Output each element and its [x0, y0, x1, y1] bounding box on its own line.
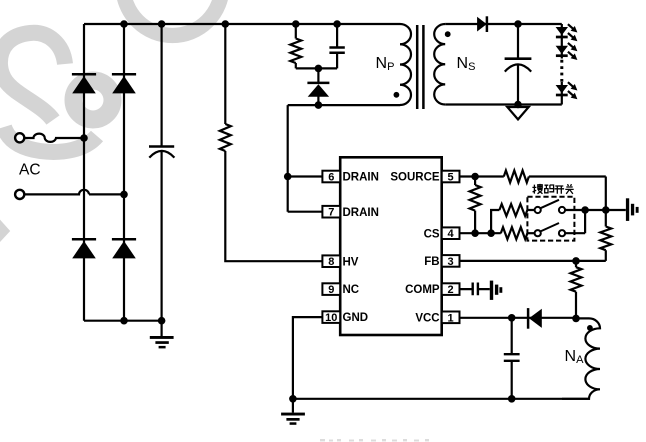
resistor divider upper [600, 227, 611, 251]
pin names [343, 172, 440, 325]
svg-text:7: 7 [328, 207, 334, 219]
faint caption fragment [320, 439, 429, 442]
resistor switch upper [499, 204, 527, 216]
pin 2 box [442, 283, 460, 295]
wire pin6 [288, 175, 323, 177]
AC terminal upper [15, 133, 24, 142]
IC body U1 [340, 157, 442, 335]
svg-text:NC: NC [343, 284, 360, 296]
resistor snubber [290, 39, 301, 64]
wire snubber cap column [336, 24, 338, 68]
wire FB resistor column [575, 261, 577, 319]
wire CS pin4 [460, 232, 501, 234]
svg-text:6: 6 [328, 172, 334, 184]
LED 1 [556, 24, 578, 41]
phase dot NS [445, 31, 451, 37]
phase dot NA [587, 325, 593, 331]
wire snubber resistor column [295, 24, 297, 68]
char ma [545, 185, 549, 193]
capacitor output top plate [505, 57, 532, 60]
AC terminal lower [15, 190, 24, 199]
svg-text:2: 2 [448, 284, 454, 296]
earth ground output [507, 107, 528, 119]
ground G2 IC [281, 413, 305, 425]
svg-text:DRAIN: DRAIN [343, 207, 379, 219]
capacitor bulk top plate [149, 145, 174, 148]
watermark letter S top hook [0, 33, 65, 120]
resistor sense [470, 185, 481, 211]
bridge diode D1 [72, 74, 96, 93]
char guan [565, 184, 573, 194]
LED 3 [556, 82, 578, 99]
wire top bus [84, 23, 400, 25]
svg-text:VCC: VCC [415, 312, 439, 324]
wire bulk cap column [161, 24, 163, 336]
wire switch lower to circle [527, 232, 534, 234]
VCC diode D7 [528, 308, 542, 329]
watermark small ring [74, 81, 113, 120]
wire secondary top [445, 23, 562, 25]
pin 3 box [442, 255, 460, 267]
LED 2 [556, 43, 578, 60]
bridge diode D4 [112, 239, 136, 258]
switch S1 upper [535, 200, 566, 213]
svg-text:9: 9 [328, 284, 334, 296]
wire secondary bottom [445, 103, 562, 105]
output diode D6 [477, 16, 487, 32]
wire divider column [605, 177, 607, 261]
wire switch outputs [565, 210, 626, 233]
capacitor COMP plates [473, 283, 478, 296]
wire SOURCE pin5 [460, 175, 606, 177]
wire ground bus bottom [293, 399, 590, 413]
pin 5 box [442, 171, 460, 183]
char kai [555, 186, 565, 194]
wire second bridge column [123, 24, 125, 321]
wire NP bottom [288, 104, 400, 106]
wire snubber diode column [317, 68, 319, 105]
wire VCC cap column [511, 318, 513, 399]
label dip switch (Chinese glyphs drawn) [532, 184, 573, 194]
resistor FB lower [571, 267, 582, 292]
pin 9 box [322, 283, 340, 295]
resistor on source line [504, 171, 529, 183]
ground G1 bridge [150, 336, 174, 348]
wire COMP pin2 [460, 288, 490, 290]
svg-text:CS: CS [424, 228, 440, 240]
resistor switch lower [501, 227, 528, 239]
wire pin10 GND [293, 317, 323, 399]
pin 7 box [322, 206, 340, 218]
wire AC live with fuse [25, 134, 85, 142]
ground G3 switch side [626, 198, 639, 221]
resistor R HV [220, 124, 231, 151]
svg-text:8: 8 [328, 256, 334, 268]
transformer secondary winding NS [434, 24, 445, 104]
transformer core [417, 25, 423, 109]
pin 1 box [442, 312, 460, 324]
switch S2 lower [535, 223, 566, 236]
wire sense resistor column [474, 177, 476, 234]
svg-text:4: 4 [448, 228, 455, 240]
svg-text:3: 3 [448, 256, 454, 268]
bridge diode D2 [112, 74, 136, 93]
wire FB pin3 [460, 260, 606, 262]
capacitor snubber [329, 48, 344, 53]
svg-text:SOURCE: SOURCE [390, 172, 440, 184]
svg-text:COMP: COMP [405, 284, 440, 296]
pin 10 box [322, 311, 340, 323]
wire drain column [287, 105, 289, 212]
svg-text:5: 5 [448, 172, 454, 184]
capacitor bulk curved plate [149, 151, 174, 158]
pin 6 box [322, 171, 340, 183]
pin numbers [325, 172, 454, 325]
wire HV column [225, 24, 322, 261]
wire AC neutral with hop [24, 190, 124, 195]
wire snubber bottom [296, 67, 337, 69]
wire left bridge column [83, 24, 85, 321]
svg-text:FB: FB [424, 256, 439, 268]
dip switch dashed box [527, 197, 574, 241]
ground G4 comp [490, 281, 503, 300]
svg-text:AC: AC [19, 162, 41, 179]
transformer primary winding NP [400, 24, 411, 105]
watermark ring [123, 0, 222, 36]
watermark wedge [0, 220, 10, 242]
wire LED dashed segment [560, 60, 563, 82]
svg-text:10: 10 [325, 312, 337, 324]
snubber diode D5 [307, 83, 329, 97]
pin 8 box [322, 255, 340, 267]
svg-text:DRAIN: DRAIN [343, 172, 379, 184]
pin 4 box [442, 227, 460, 239]
bridge diode D3 [72, 239, 96, 258]
wire pin7 [288, 211, 323, 213]
wire VCC pin1 [460, 317, 577, 319]
capacitor VCC plates [504, 354, 520, 361]
wire LED column [561, 24, 563, 105]
phase dot NP [394, 92, 400, 98]
svg-text:HV: HV [343, 256, 359, 268]
wire output cap column [517, 24, 519, 107]
capacitor output curved plate [505, 64, 531, 71]
watermark bottom curve [4, 127, 97, 152]
char bo [532, 185, 536, 194]
auxiliary winding NA [562, 318, 600, 398]
pin boxes [322, 171, 459, 323]
svg-text:GND: GND [343, 312, 369, 324]
wire switch upper branch [491, 210, 534, 233]
svg-text:1: 1 [448, 312, 454, 324]
wire bottom-left bus [84, 320, 162, 322]
